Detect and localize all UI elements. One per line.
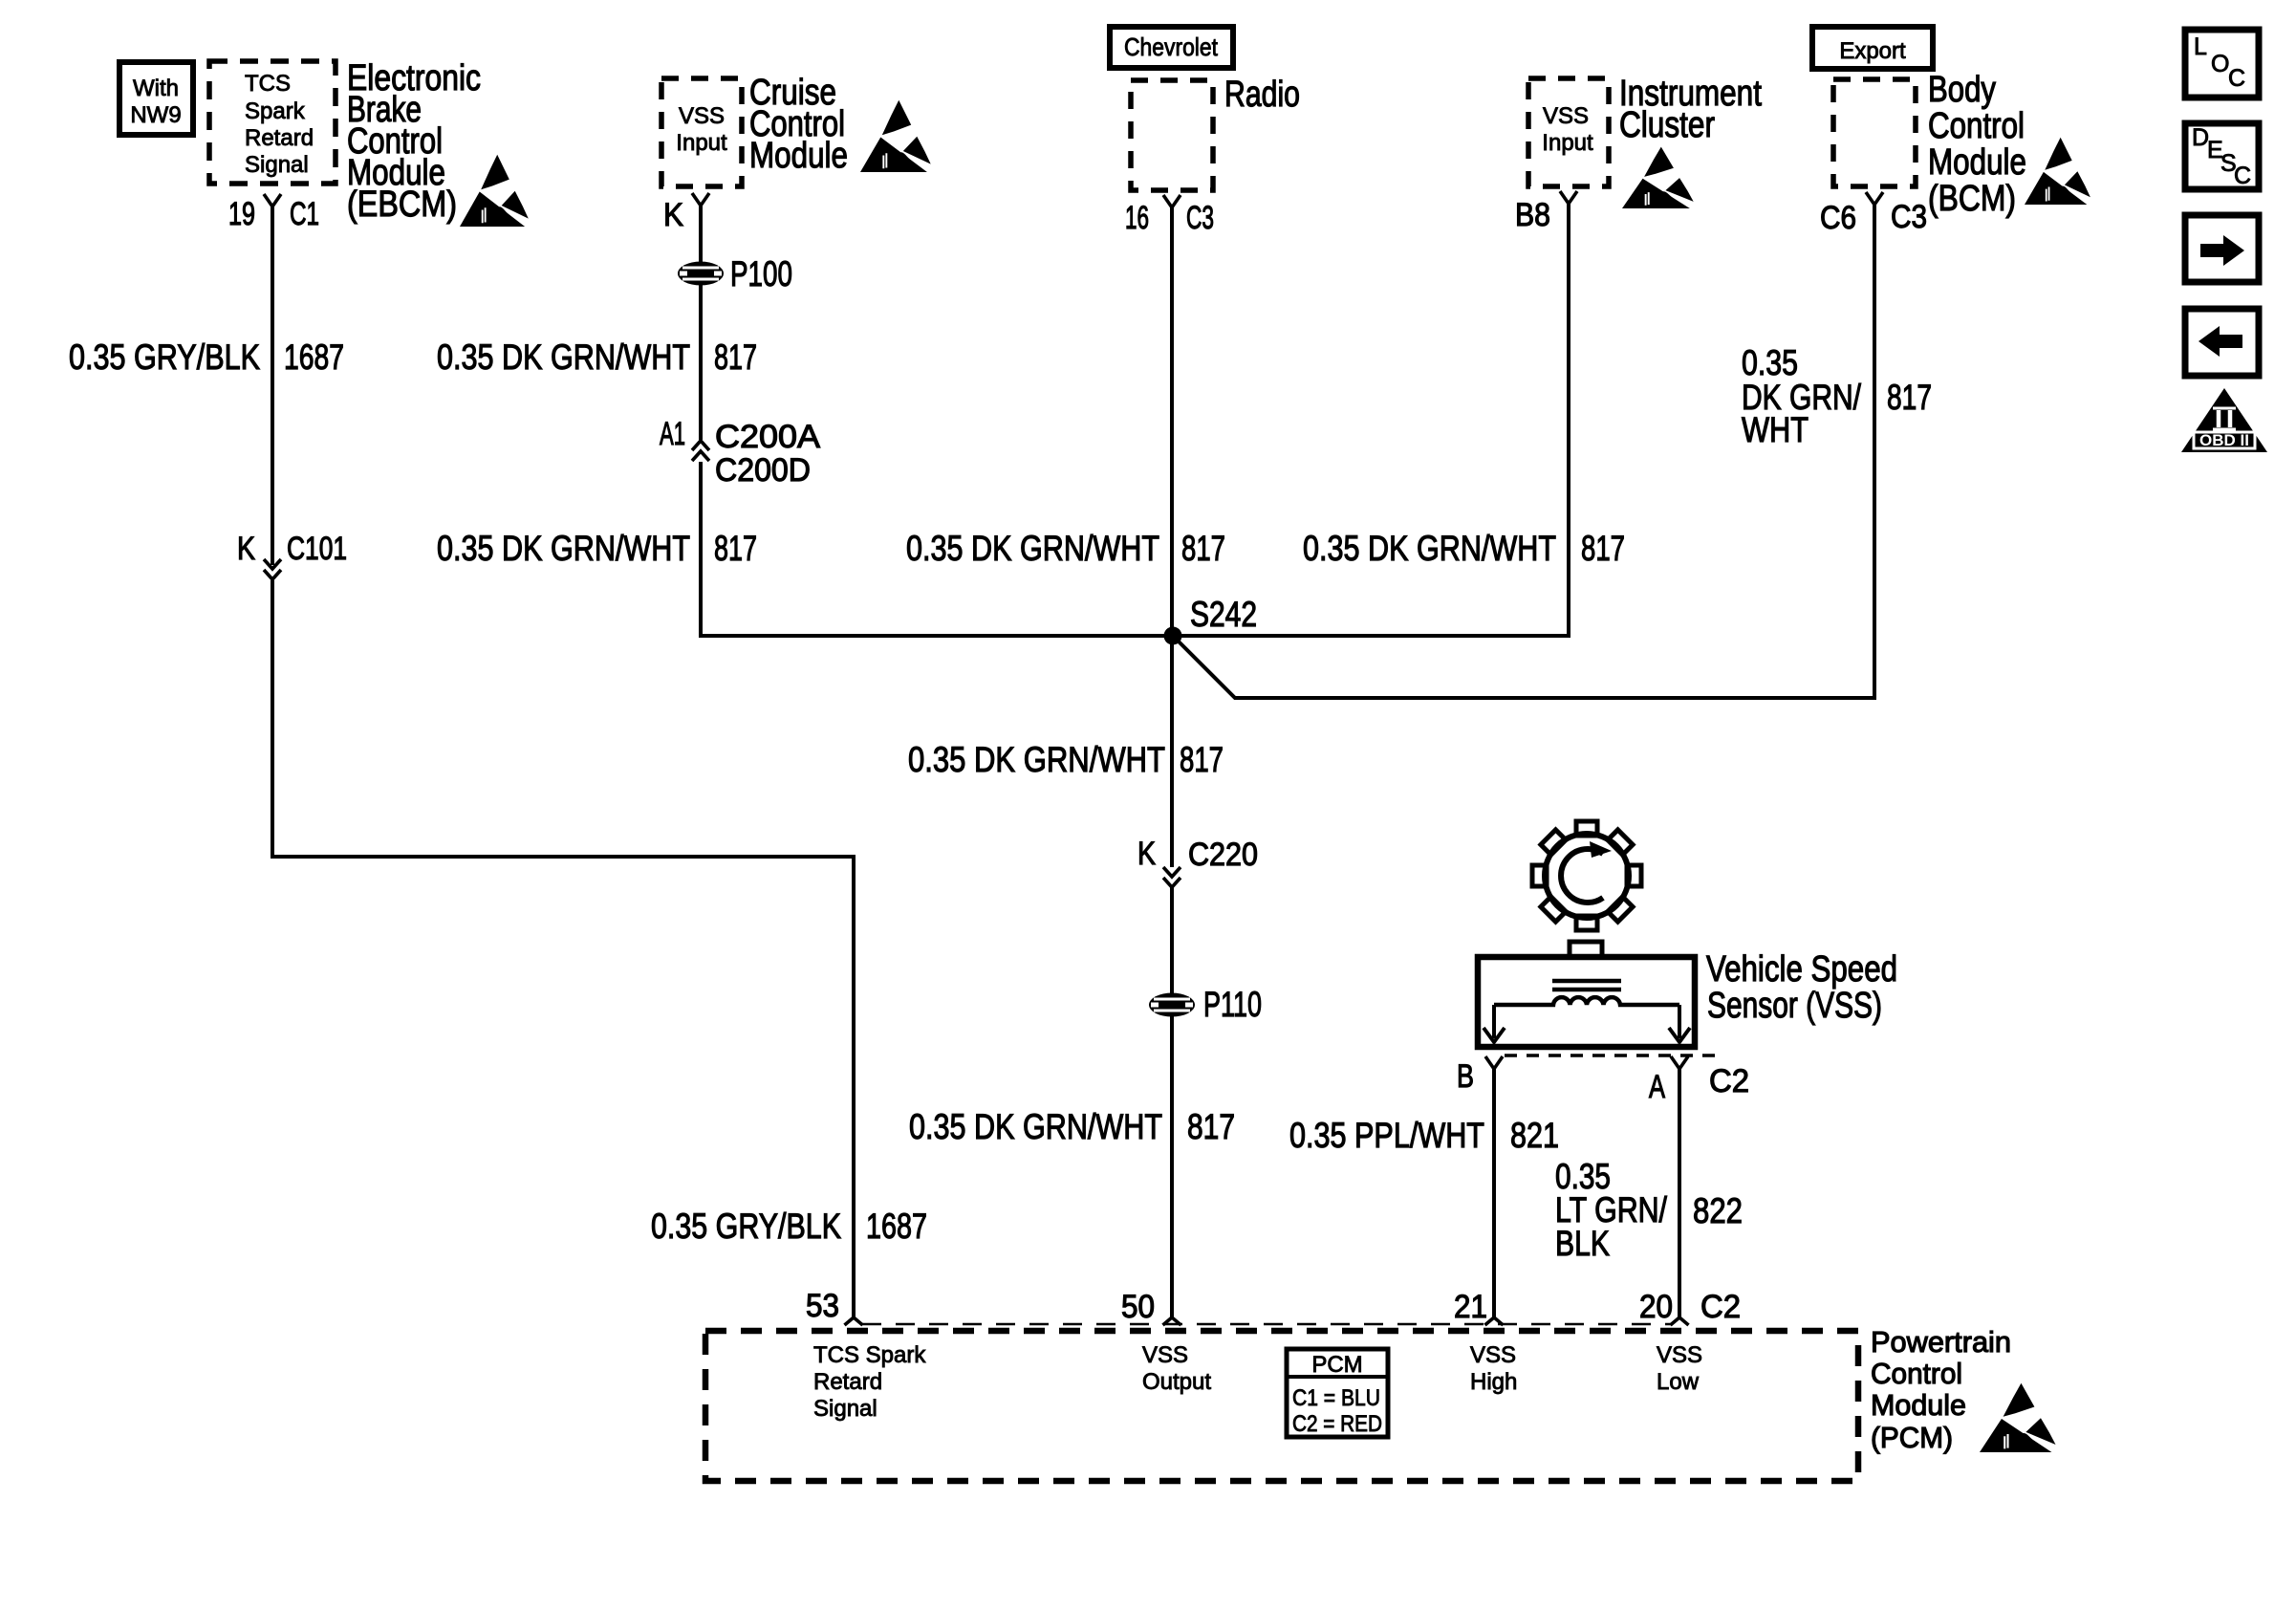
svg-text:Sensor (VSS): Sensor (VSS) xyxy=(1707,986,1882,1026)
wire 817 from P110 down to PCM pin 50 xyxy=(1170,1016,1174,1317)
OBD II triangle icon xyxy=(2181,388,2267,452)
svg-text:Module: Module xyxy=(749,136,848,176)
svg-text:VSS: VSS xyxy=(1142,1342,1188,1368)
svg-text:PCM: PCM xyxy=(1311,1352,1362,1378)
connector fork at PCM pin 20 xyxy=(1671,1317,1689,1325)
connector fork at PCM pin 21 xyxy=(1485,1317,1504,1325)
svg-text:0.35: 0.35 xyxy=(1742,343,1798,382)
svg-text:C2: C2 xyxy=(1709,1063,1749,1099)
svg-text:B8: B8 xyxy=(1515,197,1550,233)
wire 817 from Radio pin 16 down to C220 xyxy=(1170,207,1174,867)
svg-text:C101: C101 xyxy=(287,531,347,567)
in-line connector C200A C200D xyxy=(692,441,709,461)
svg-text:S242: S242 xyxy=(1190,595,1257,634)
svg-text:Control: Control xyxy=(1928,106,2025,146)
splice junction S242 xyxy=(1164,627,1182,645)
svg-text:C1 = BLU: C1 = BLU xyxy=(1292,1385,1380,1411)
VSS sensor body box xyxy=(1478,957,1695,1047)
VSS sensor internal lead B with arrow xyxy=(1484,1005,1505,1042)
svg-text:0.35 PPL/WHT: 0.35 PPL/WHT xyxy=(1289,1116,1484,1155)
svg-text:K: K xyxy=(237,531,255,567)
svg-text:VSS: VSS xyxy=(1657,1342,1702,1368)
VSS sensor coil xyxy=(1494,997,1679,1005)
in-line connector C220 xyxy=(1163,867,1180,887)
right arrow icon box xyxy=(2185,215,2259,282)
svg-text:16: 16 xyxy=(1125,200,1149,236)
svg-text:With: With xyxy=(133,76,179,101)
svg-text:(EBCM): (EBCM) xyxy=(347,185,457,225)
svg-text:C3: C3 xyxy=(1891,199,1927,235)
wire 1687 from EBCM pin 19 down to C101 xyxy=(271,207,274,565)
svg-text:817: 817 xyxy=(1180,740,1224,779)
grommet P100 xyxy=(678,262,724,286)
svg-text:VSS: VSS xyxy=(679,103,725,129)
VSS sensor top tab xyxy=(1570,942,1602,957)
ESD symbol at Cruise Control Module xyxy=(860,100,931,172)
wire 821 from VSS pin B down to PCM pin 21 xyxy=(1492,1069,1496,1317)
svg-text:Input: Input xyxy=(1542,130,1593,156)
svg-text:Export: Export xyxy=(1839,38,1906,64)
svg-text:VSS: VSS xyxy=(1470,1342,1516,1368)
ESD symbol at EBCM xyxy=(460,155,529,227)
svg-text:0.35 DK GRN/WHT: 0.35 DK GRN/WHT xyxy=(437,337,690,377)
VSS connector dashed line xyxy=(1505,1054,1716,1057)
Chevrolet box xyxy=(1110,27,1233,68)
svg-text:TCS: TCS xyxy=(245,71,291,97)
svg-text:High: High xyxy=(1470,1369,1517,1395)
svg-text:817: 817 xyxy=(1181,529,1225,568)
svg-text:Radio: Radio xyxy=(1224,75,1300,115)
wire 1687 from C101 down, right and down to PCM pin 53 xyxy=(272,580,854,1317)
option box With NW9 xyxy=(119,62,193,135)
svg-text:BLK: BLK xyxy=(1555,1224,1610,1263)
svg-text:0.35 DK GRN/WHT: 0.35 DK GRN/WHT xyxy=(906,529,1159,568)
svg-text:Cluster: Cluster xyxy=(1619,105,1715,145)
ESD symbol at PCM xyxy=(1980,1383,2056,1452)
svg-text:VSS: VSS xyxy=(1543,103,1589,129)
svg-text:Retard: Retard xyxy=(245,125,314,151)
connector fork at Instrument Cluster pin B8 xyxy=(1560,191,1577,204)
svg-text:C200A: C200A xyxy=(715,419,820,455)
svg-text:Chevrolet: Chevrolet xyxy=(1124,33,1219,61)
left arrow xyxy=(2199,326,2242,357)
svg-text:C3: C3 xyxy=(1186,200,1214,236)
svg-text:817: 817 xyxy=(714,337,757,377)
svg-text:A: A xyxy=(1649,1069,1665,1105)
VSS reluctor gear ring xyxy=(1545,834,1629,918)
svg-text:Low: Low xyxy=(1657,1369,1700,1395)
svg-text:B: B xyxy=(1457,1058,1474,1095)
svg-text:(BCM): (BCM) xyxy=(1928,179,2016,219)
DESC icon box xyxy=(2185,123,2259,189)
svg-text:L: L xyxy=(2194,33,2207,60)
svg-text:Spark: Spark xyxy=(245,98,306,124)
wire 817 from P100 to C200 xyxy=(699,285,703,440)
svg-text:P100: P100 xyxy=(730,254,792,294)
wire 817 from C200 down to junction S242 xyxy=(701,462,1168,636)
svg-text:K: K xyxy=(663,197,683,233)
PCM legend box xyxy=(1287,1349,1388,1437)
svg-text:0.35 GRY/BLK: 0.35 GRY/BLK xyxy=(651,1207,841,1246)
svg-text:0.35 GRY/BLK: 0.35 GRY/BLK xyxy=(69,337,260,377)
connector fork at PCM pin 53 xyxy=(845,1317,863,1325)
svg-text:C220: C220 xyxy=(1188,837,1258,873)
VSS sensor core bars xyxy=(1552,981,1621,990)
wire 817 from S242 diagonal and right to BCM pin C6 xyxy=(1175,205,1874,698)
wire 817 from Cruise pin K to P100 xyxy=(699,206,703,262)
svg-text:O: O xyxy=(2211,51,2229,77)
svg-text:0.35 DK GRN/WHT: 0.35 DK GRN/WHT xyxy=(908,740,1165,779)
svg-text:817: 817 xyxy=(714,529,757,568)
connector fork at BCM pin C6 C3 xyxy=(1866,192,1883,205)
PCM connector fine dashed line xyxy=(862,1323,1671,1326)
svg-text:0.35 DK GRN/WHT: 0.35 DK GRN/WHT xyxy=(1303,529,1556,568)
wire 817 from C220 to P110 xyxy=(1170,887,1174,994)
svg-text:Control: Control xyxy=(1871,1357,1962,1390)
svg-text:Signal: Signal xyxy=(813,1396,877,1422)
EBCM TCS Spark Retard Signal dashed box xyxy=(209,61,336,184)
connector fork at Radio pin 16 C3 xyxy=(1163,195,1180,207)
svg-text:C200D: C200D xyxy=(715,452,811,489)
ESD symbol at BCM xyxy=(2025,138,2090,205)
svg-text:NW9: NW9 xyxy=(130,102,181,128)
svg-text:Output: Output xyxy=(1142,1369,1211,1395)
svg-text:C2 = RED: C2 = RED xyxy=(1292,1411,1382,1437)
svg-text:821: 821 xyxy=(1510,1116,1559,1155)
svg-text:1687: 1687 xyxy=(866,1207,927,1246)
connector fork at VSS pin B xyxy=(1485,1056,1503,1069)
right arrow xyxy=(2200,235,2244,266)
svg-text:817: 817 xyxy=(1581,529,1625,568)
connector fork at PCM pin 50 xyxy=(1163,1317,1181,1325)
svg-text:(PCM): (PCM) xyxy=(1871,1421,1953,1454)
wire 822 from VSS pin A down to PCM pin 20 xyxy=(1678,1069,1681,1317)
svg-text:Powertrain: Powertrain xyxy=(1871,1325,2011,1359)
Cruise Control VSS Input dashed box xyxy=(661,78,742,186)
VSS sensor internal lead A with arrow xyxy=(1669,1005,1690,1042)
svg-text:21: 21 xyxy=(1454,1289,1487,1325)
svg-text:A1: A1 xyxy=(660,416,685,452)
VSS gear teeth xyxy=(1532,821,1641,930)
BCM dashed box xyxy=(1833,79,1916,186)
svg-text:Body: Body xyxy=(1928,70,1996,110)
svg-text:0.35 DK GRN/WHT: 0.35 DK GRN/WHT xyxy=(909,1107,1162,1146)
Radio dashed box xyxy=(1131,80,1213,190)
svg-text:C2: C2 xyxy=(1700,1289,1741,1325)
svg-text:K: K xyxy=(1137,836,1156,872)
VSS gear rotation arrow xyxy=(1561,849,1603,903)
svg-text:C: C xyxy=(2234,163,2251,189)
svg-text:WHT: WHT xyxy=(1742,410,1809,449)
svg-text:53: 53 xyxy=(806,1288,839,1324)
svg-text:P110: P110 xyxy=(1203,985,1262,1024)
connector fork at EBCM pin 19 C1 xyxy=(264,194,281,207)
svg-text:Input: Input xyxy=(676,130,727,156)
left arrow icon box xyxy=(2185,309,2259,376)
svg-text:817: 817 xyxy=(1887,378,1932,417)
svg-text:Retard: Retard xyxy=(813,1369,882,1395)
svg-text:50: 50 xyxy=(1121,1289,1155,1325)
svg-text:C: C xyxy=(2228,65,2245,92)
grommet P110 xyxy=(1149,993,1195,1017)
svg-text:C6: C6 xyxy=(1820,200,1856,236)
PCM dashed box xyxy=(705,1331,1858,1481)
svg-text:817: 817 xyxy=(1187,1107,1235,1146)
svg-text:OBD II: OBD II xyxy=(2199,431,2249,449)
svg-text:Module: Module xyxy=(1928,142,2026,183)
svg-text:Signal: Signal xyxy=(245,152,309,178)
Export box xyxy=(1812,27,1933,69)
ESD symbol at Instrument Cluster xyxy=(1622,147,1694,208)
Instrument Cluster VSS Input dashed box xyxy=(1528,78,1609,186)
svg-text:Module: Module xyxy=(1871,1388,1966,1422)
LOC icon box xyxy=(2185,30,2259,98)
svg-text:1687: 1687 xyxy=(284,337,344,377)
svg-text:C1: C1 xyxy=(290,196,319,232)
svg-text:Vehicle Speed: Vehicle Speed xyxy=(1706,949,1897,990)
in-line connector C101 xyxy=(264,559,281,579)
connector fork at Cruise Control pin K xyxy=(692,193,709,206)
connector fork at VSS pin A xyxy=(1671,1056,1688,1069)
wire 817 from S242 to Instrument Cluster pin B8 xyxy=(1178,204,1569,636)
svg-text:822: 822 xyxy=(1693,1191,1743,1230)
svg-text:TCS Spark: TCS Spark xyxy=(813,1342,926,1368)
svg-text:0.35 DK GRN/WHT: 0.35 DK GRN/WHT xyxy=(437,529,690,568)
svg-text:20: 20 xyxy=(1639,1289,1673,1325)
svg-text:19: 19 xyxy=(228,196,255,232)
